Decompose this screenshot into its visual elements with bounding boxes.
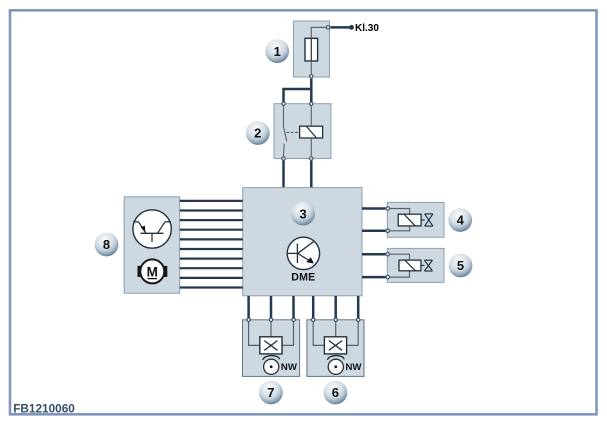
valve symbol 4 <box>425 214 433 226</box>
node sensor 7 pin2 <box>269 318 272 321</box>
label 6 <box>324 381 348 405</box>
wire DME to sensor 6 line1 <box>312 296 315 318</box>
wire relay coil leads <box>310 106 312 156</box>
relay box 2 <box>274 104 331 159</box>
node sensor 6 pin2 <box>334 318 337 321</box>
DME control unit box 3 <box>243 188 362 296</box>
valve box 5 <box>387 248 444 282</box>
svg-text:1: 1 <box>274 44 281 59</box>
valve element box 7 <box>260 337 282 354</box>
wire DME to sensor 6 line3 <box>357 296 360 318</box>
wire branch to relay left <box>284 89 311 102</box>
wire bus 8 to DME (10 lines) <box>180 201 243 288</box>
wire relay to DME right <box>310 161 313 188</box>
label 1 <box>265 39 289 63</box>
transistor Q2 in box 8 <box>133 210 171 248</box>
node sensor 7 pin1 <box>247 318 250 321</box>
solenoid coil 4 <box>398 214 425 226</box>
node relay pin bottom-right <box>310 157 313 160</box>
label 4 <box>448 208 472 232</box>
value label NW (6) <box>346 362 363 373</box>
wire DME to valve 5 lower <box>362 276 386 279</box>
valve element box 6 <box>324 337 346 354</box>
svg-text:5: 5 <box>457 258 464 273</box>
relay switch contact <box>283 106 287 156</box>
wire relay to DME left <box>282 161 285 188</box>
wire fuse to relay right <box>310 79 313 102</box>
wire DME to sensor 6 line2 <box>334 296 337 318</box>
svg-text:M: M <box>147 264 158 279</box>
node valve 4 pin lower <box>386 229 389 232</box>
wire DME to valve 5 upper <box>362 253 386 256</box>
svg-text:4: 4 <box>457 213 465 228</box>
wire sensor 6 internal leads <box>313 322 358 345</box>
wire fuse top lead <box>311 27 326 38</box>
drawing number FB1210060 <box>13 401 75 415</box>
svg-text:6: 6 <box>332 385 339 400</box>
wire sensor 7 internal leads <box>249 322 294 345</box>
node sensor 6 pin1 <box>312 318 315 321</box>
svg-text:DME: DME <box>291 272 315 284</box>
wire DME to sensor 7 line1 <box>247 296 250 318</box>
wire DME to sensor 7 line3 <box>292 296 295 318</box>
wire fuse bottom lead <box>310 61 312 74</box>
transistor Q1 in DME <box>287 237 319 269</box>
svg-text:Kl.30: Kl.30 <box>355 23 379 34</box>
valve box 4 <box>387 202 444 237</box>
label 3 <box>291 202 315 226</box>
net label Kl.30 <box>355 23 379 34</box>
svg-text:8: 8 <box>103 237 110 252</box>
node sensor 7 pin3 <box>292 318 295 321</box>
svg-text:7: 7 <box>267 385 274 400</box>
label 2 <box>246 121 270 145</box>
value label DME <box>291 272 315 284</box>
svg-text:NW: NW <box>281 362 298 373</box>
actuator box 8 <box>124 197 180 293</box>
node relay pin bottom-left <box>282 157 285 160</box>
valve symbol 5 <box>424 260 432 271</box>
wire DME to valve 4 lower <box>362 230 386 233</box>
solenoid coil 5 <box>399 260 424 271</box>
relay coil K1 <box>300 126 323 138</box>
wire valve 5 internal leads <box>390 254 410 277</box>
label 7 <box>259 381 283 405</box>
node fuse bottom <box>310 75 313 78</box>
svg-text:FB1210060: FB1210060 <box>13 401 75 415</box>
svg-text:NW: NW <box>346 362 363 373</box>
node valve 5 pin lower <box>386 275 389 278</box>
sensor box 6 <box>307 320 364 377</box>
label 8 <box>95 233 119 257</box>
node sensor 6 pin3 <box>357 318 360 321</box>
motor M1 in box 8 <box>138 259 168 283</box>
value label NW (7) <box>281 362 298 373</box>
wire to Kl.30 <box>330 26 350 29</box>
wire DME to valve 4 upper <box>362 207 386 210</box>
node relay pin top-left <box>282 102 285 105</box>
node Kl.30 terminal <box>349 25 354 30</box>
svg-text:2: 2 <box>254 126 261 141</box>
label 5 <box>449 254 473 278</box>
fuse box 1 <box>294 21 330 77</box>
node fuse output <box>326 26 329 29</box>
svg-text:3: 3 <box>299 206 306 221</box>
node relay pin top-right <box>310 102 313 105</box>
camshaft sensor 7 <box>263 356 280 375</box>
node valve 4 pin upper <box>386 207 389 210</box>
camshaft sensor 6 <box>328 356 345 375</box>
wire valve 4 internal leads <box>390 209 410 231</box>
wire DME to sensor 7 line2 <box>270 296 273 318</box>
sensor box 7 <box>243 320 300 377</box>
relay actuation dashed link <box>287 131 300 133</box>
node valve 5 pin upper <box>386 253 389 256</box>
fuse F1 <box>305 38 318 61</box>
